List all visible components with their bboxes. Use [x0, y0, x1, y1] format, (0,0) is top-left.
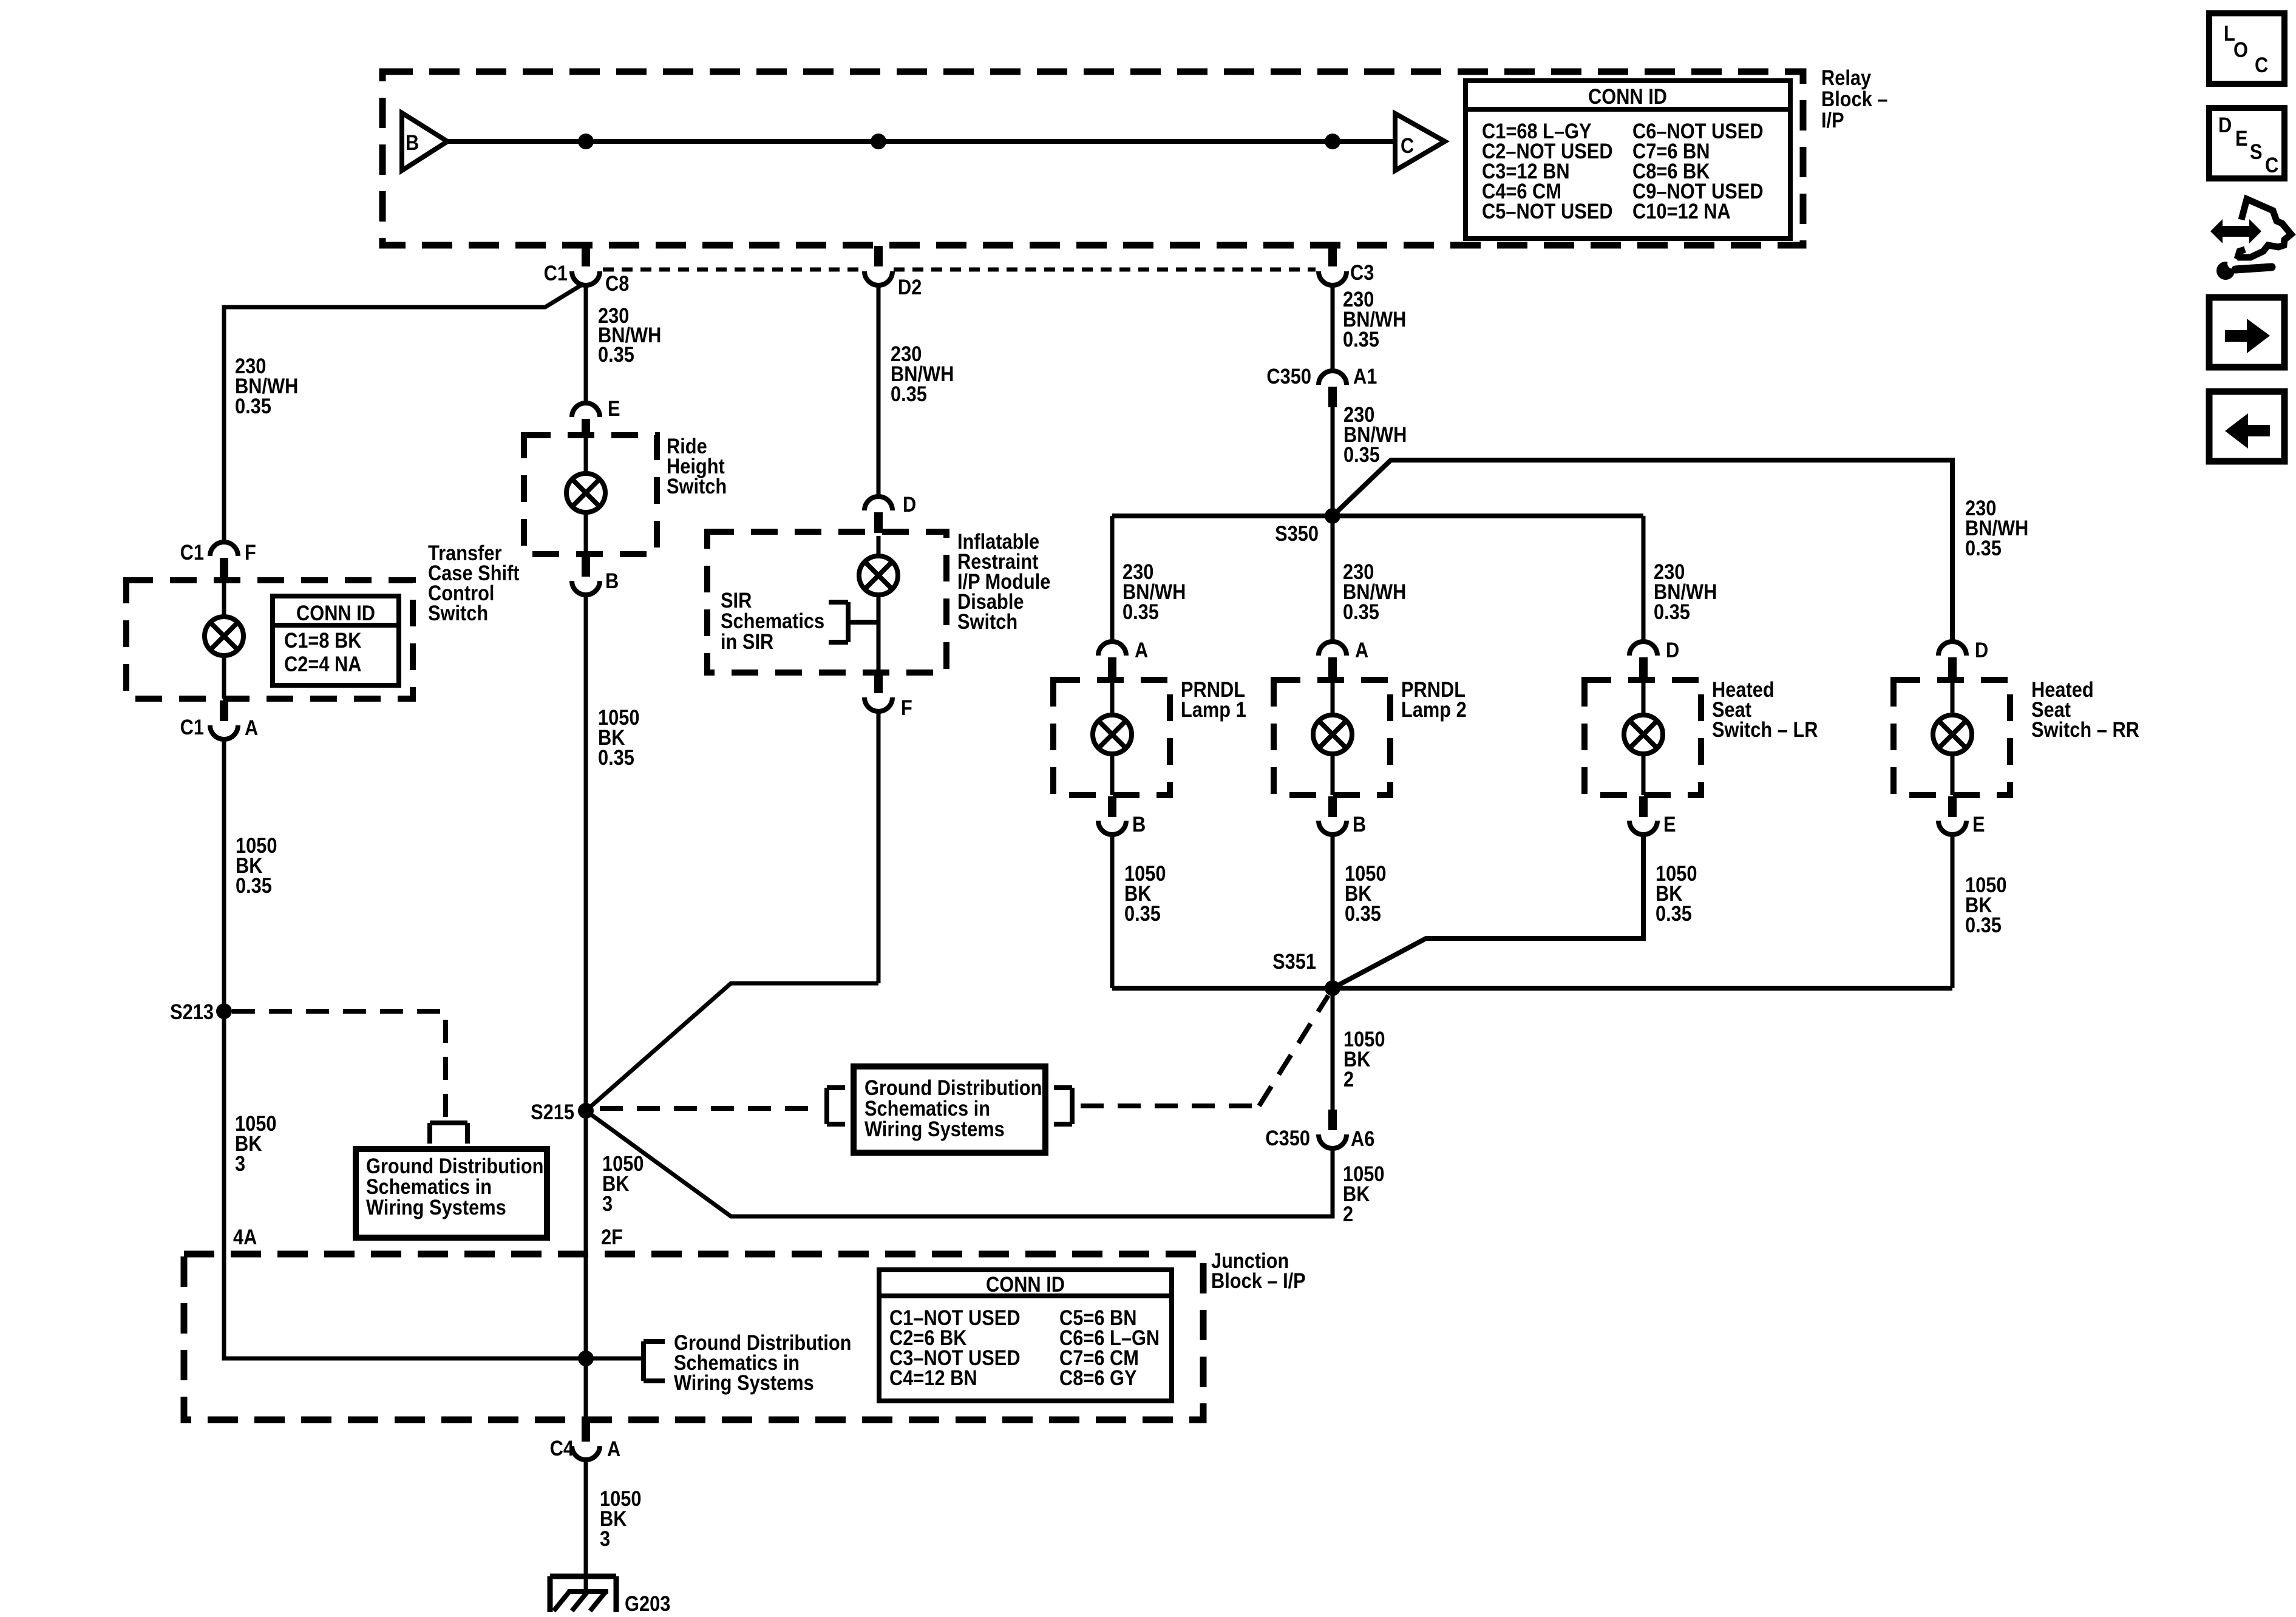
- bracket junction ground reference: [644, 1341, 665, 1381]
- wire label 1050 BK 0.35 (Heated Seat Switch RR): [1965, 873, 2006, 937]
- svg-text:C350: C350: [1266, 364, 1311, 388]
- wire A to junction block: [224, 739, 642, 1358]
- label Transfer Case Shift Control Switch: [428, 541, 520, 625]
- dotted connector tie line: [603, 268, 1316, 272]
- svg-text:C1: C1: [544, 261, 568, 285]
- svg-text:B: B: [1132, 812, 1146, 836]
- wire feed Heated Seat Switch LR: [1642, 516, 1646, 642]
- label Heated Seat Switch LR: [1712, 677, 1818, 741]
- wire label 1050 BK 0.35 (left): [236, 833, 277, 897]
- wire label 230 BN/WH 0.35 (left branch): [235, 354, 298, 418]
- node S215: [531, 1100, 594, 1124]
- off-page arrow B: [402, 113, 447, 171]
- wire label 1050 BK 3 (S215 wire): [602, 1151, 644, 1215]
- bracket right of middle ground distribution box: [1054, 1088, 1072, 1124]
- svg-text:Switch – RR: Switch – RR: [2031, 717, 2139, 741]
- wire label 230 BN/WH 0.35 (above A1): [1343, 287, 1406, 351]
- connector B (PRNDL Lamp 2): [1319, 796, 1366, 836]
- svg-text:C: C: [2255, 53, 2268, 76]
- svg-text:B: B: [1353, 812, 1366, 836]
- svg-text:0.35: 0.35: [1345, 901, 1381, 925]
- label 2F: [601, 1225, 623, 1249]
- inflatable restraint switch dashed box: [707, 532, 946, 673]
- wire label 1050 BK 0.35 (PRNDL Lamp 2): [1345, 861, 1386, 925]
- svg-text:3: 3: [235, 1151, 245, 1175]
- svg-text:C3: C3: [1350, 260, 1374, 284]
- svg-text:0.35: 0.35: [236, 873, 272, 897]
- wire feed PRNDL Lamp 1: [1110, 516, 1115, 642]
- wire D2 to D: [877, 285, 881, 497]
- svg-text:Lamp 2: Lamp 2: [1401, 697, 1467, 721]
- svg-text:in SIR: in SIR: [721, 629, 773, 653]
- bus wire: [447, 139, 1395, 144]
- svg-text:Relay: Relay: [1821, 66, 1872, 89]
- svg-text:0.35: 0.35: [598, 342, 634, 366]
- svg-text:Lamp 1: Lamp 1: [1181, 697, 1246, 721]
- connector B (PRNDL Lamp 1): [1098, 796, 1146, 836]
- connector D (Heated Seat Switch LR): [1629, 638, 1679, 678]
- ground distribution reference box (middle): [854, 1066, 1045, 1153]
- wire feed PRNDL Lamp 2: [1331, 516, 1335, 642]
- svg-text:C8: C8: [605, 271, 629, 295]
- wire A1 to S350: [1331, 407, 1335, 516]
- previous page arrow icon: [2209, 392, 2284, 461]
- dashed reference wire right of S215: [600, 1106, 818, 1111]
- ride height switch dashed box: [524, 435, 657, 554]
- svg-text:0.35: 0.35: [1965, 536, 2002, 560]
- wire label 1050 BK 0.35 (B wire): [598, 705, 639, 769]
- lamp (inflatable restraint switch): [859, 536, 898, 673]
- svg-text:Switch: Switch: [428, 601, 488, 625]
- wire label 1050 BK 2 (above A6): [1343, 1027, 1385, 1091]
- PRNDL Lamp 1 dashed box: [1053, 680, 1170, 795]
- label SIR Schematics in SIR: [721, 588, 824, 653]
- svg-text:0.35: 0.35: [1656, 901, 1692, 925]
- svg-text:Block – I/P: Block – I/P: [1211, 1269, 1306, 1292]
- wire label 230 BN/WH 0.35 (RR branch): [1965, 496, 2028, 560]
- svg-text:A1: A1: [1353, 364, 1377, 388]
- connector A (PRNDL Lamp 1): [1098, 638, 1148, 678]
- svg-text:O: O: [2233, 38, 2248, 61]
- wire label 1050 BK 3 (left): [235, 1111, 276, 1175]
- svg-text:S: S: [2250, 140, 2263, 163]
- CONN ID table (transfer case switch): [273, 596, 399, 685]
- label Ride Height Switch: [667, 434, 727, 498]
- off-page arrow C: [1395, 114, 1445, 171]
- Heated Seat Switch LR dashed box: [1584, 680, 1701, 795]
- wire S215 to A6 branch: [586, 1111, 1333, 1216]
- wire PRNDL Lamp 2 to S351: [1331, 835, 1335, 988]
- PRNDL Lamp 2 dashed box: [1274, 680, 1390, 795]
- lamp (ride height switch): [566, 437, 605, 554]
- node S213: [170, 1000, 232, 1023]
- CONN ID table (relay block): [1466, 81, 1790, 239]
- wire S215 to F branch: [586, 983, 878, 1111]
- wire C3 to A1: [1331, 285, 1335, 371]
- S350 distribution wire: [1112, 514, 1643, 518]
- connector C1/C8: [544, 246, 630, 295]
- Heated Seat Switch RR dashed box: [1894, 680, 2010, 795]
- junction dot (ground tie): [578, 1351, 594, 1366]
- wire B to S215 to junction block: [584, 595, 588, 1421]
- connector C350/A1: [1266, 364, 1377, 407]
- svg-text:D2: D2: [898, 275, 922, 299]
- wire Heated Seat LR to S351: [1333, 835, 1643, 988]
- svg-text:2: 2: [1343, 1067, 1354, 1091]
- wire C8 to E: [584, 285, 588, 403]
- connector D (SIR switch): [864, 492, 916, 533]
- node S351: [1272, 949, 1340, 996]
- svg-text:0.35: 0.35: [891, 382, 927, 405]
- S351 distribution wire: [1112, 986, 1952, 991]
- wire A to G203: [584, 1460, 588, 1589]
- svg-text:C5–NOT USED: C5–NOT USED: [1482, 199, 1613, 223]
- lamp (Heated Seat Switch LR): [1624, 678, 1663, 795]
- wire Heated Seat RR to S351: [1951, 835, 1955, 988]
- svg-text:Switch: Switch: [667, 474, 727, 498]
- svg-text:0.35: 0.35: [1123, 600, 1159, 623]
- label ground distribution (junction): [674, 1331, 851, 1394]
- svg-text:F: F: [901, 696, 912, 719]
- connector C350/A6: [1265, 1110, 1374, 1150]
- svg-text:0.35: 0.35: [1343, 442, 1380, 466]
- LOC icon: [2209, 13, 2284, 84]
- svg-text:3: 3: [600, 1527, 610, 1550]
- svg-text:E: E: [1972, 812, 1985, 836]
- svg-text:B: B: [406, 131, 419, 154]
- svg-text:E: E: [1663, 812, 1676, 836]
- svg-text:CONN ID: CONN ID: [986, 1272, 1065, 1296]
- node S350: [1275, 508, 1340, 545]
- wire C1 to transfer case switch: [224, 285, 581, 540]
- bracket to ground distribution box: [430, 1123, 467, 1144]
- svg-text:C2=4 NA: C2=4 NA: [284, 652, 361, 676]
- svg-text:Block –: Block –: [1821, 87, 1888, 110]
- connector B (ride height switch): [572, 556, 619, 595]
- label PRNDL Lamp 1: [1181, 677, 1246, 721]
- svg-text:Wiring Systems: Wiring Systems: [674, 1371, 814, 1394]
- lamp (PRNDL Lamp 2): [1313, 678, 1352, 795]
- wire label 230 BN/WH 0.35 (D2 branch): [891, 342, 954, 405]
- svg-text:0.35: 0.35: [1654, 600, 1690, 623]
- svg-text:CONN ID: CONN ID: [1588, 84, 1667, 108]
- svg-text:D: D: [1975, 638, 1988, 662]
- connector C1/A: [180, 700, 259, 739]
- wire S350 to RR branch: [1333, 460, 1952, 642]
- svg-text:Wiring Systems: Wiring Systems: [366, 1195, 506, 1219]
- wire label 1050 BK 0.35 (Heated Seat Switch LR): [1656, 861, 1697, 925]
- next page arrow icon: [2209, 297, 2284, 367]
- svg-text:0.35: 0.35: [598, 745, 634, 769]
- wire label 1050 BK 3 (ground wire): [600, 1486, 641, 1550]
- dashed reference wire to S351: [1081, 995, 1328, 1106]
- svg-text:3: 3: [602, 1192, 613, 1215]
- connector C1/F: [180, 540, 256, 578]
- svg-text:A6: A6: [1351, 1127, 1374, 1150]
- svg-text:S351: S351: [1272, 949, 1316, 973]
- svg-text:S350: S350: [1275, 521, 1319, 545]
- svg-text:0.35: 0.35: [1343, 327, 1379, 351]
- wire S351 to A6: [1331, 988, 1335, 1110]
- svg-text:C: C: [2265, 153, 2278, 177]
- svg-text:A: A: [607, 1437, 620, 1460]
- svg-text:I/P: I/P: [1821, 108, 1844, 132]
- svg-text:F: F: [245, 540, 256, 564]
- svg-text:C1=8 BK: C1=8 BK: [284, 628, 362, 652]
- svg-text:S215: S215: [531, 1100, 574, 1124]
- label Relay Block - I/P: [1821, 66, 1888, 132]
- svg-text:G203: G203: [625, 1592, 670, 1615]
- CONN ID table (junction block): [879, 1270, 1172, 1401]
- dashed reference wire from S213: [232, 1011, 446, 1120]
- svg-text:C1: C1: [180, 715, 204, 739]
- wire PRNDL Lamp 1 to S351: [1110, 835, 1115, 988]
- ground distribution reference box (left): [356, 1149, 547, 1238]
- svg-text:Switch – LR: Switch – LR: [1712, 717, 1818, 741]
- relay block dashed box: [382, 72, 1803, 245]
- junction block dashed box: [184, 1254, 1203, 1420]
- svg-text:C8=6 GY: C8=6 GY: [1059, 1366, 1137, 1389]
- wire label 1050 BK 2 (below A6): [1343, 1162, 1384, 1225]
- label PRNDL Lamp 2: [1401, 677, 1467, 721]
- connector A (PRNDL Lamp 2): [1319, 638, 1368, 678]
- DESC icon: [2209, 108, 2284, 178]
- svg-text:0.35: 0.35: [1343, 600, 1379, 623]
- junction dot on bus at C1 drop: [578, 134, 594, 149]
- svg-text:D: D: [2218, 113, 2232, 137]
- svg-text:A: A: [1355, 638, 1368, 662]
- label Inflatable Restraint I/P Module Disable Switch: [957, 529, 1050, 633]
- svg-text:C: C: [1401, 134, 1414, 157]
- bracket SIR reference: [829, 602, 877, 642]
- svg-text:C1: C1: [180, 540, 204, 564]
- wire F down to S215 corner: [877, 711, 881, 983]
- diagnostic icon (arrow and wrench): [2210, 199, 2291, 280]
- junction dot on bus at C3 drop: [1325, 134, 1340, 149]
- connector C4/A: [550, 1421, 621, 1460]
- transfer case switch dashed box: [126, 580, 413, 699]
- svg-text:2F: 2F: [601, 1225, 623, 1249]
- svg-text:B: B: [605, 569, 619, 592]
- connector E: [572, 396, 620, 437]
- connector D2: [864, 246, 922, 299]
- label Junction Block - I/P: [1211, 1249, 1306, 1292]
- svg-text:C4: C4: [550, 1436, 574, 1460]
- wire label 1050 BK 0.35 (PRNDL Lamp 1): [1124, 861, 1166, 925]
- wire feed Heated Seat Switch RR: [1951, 460, 1955, 642]
- svg-text:D: D: [1666, 638, 1679, 662]
- wire label 230 BN/WH 0.35 (C8 branch): [598, 303, 661, 366]
- svg-text:0.35: 0.35: [1124, 901, 1161, 925]
- wire label 230 BN/WH 0.35 (Heated Seat Switch LR): [1654, 560, 1717, 623]
- svg-text:2: 2: [1343, 1202, 1353, 1225]
- svg-text:0.35: 0.35: [235, 394, 271, 418]
- svg-text:D: D: [903, 492, 916, 516]
- svg-text:A: A: [245, 716, 258, 739]
- connector D (Heated Seat Switch RR): [1938, 638, 1988, 678]
- wire label 230 BN/WH 0.35 (PRNDL Lamp 2): [1343, 560, 1406, 623]
- junction dot on bus at D2 drop: [871, 134, 886, 149]
- label 4A: [233, 1225, 257, 1249]
- svg-text:E: E: [608, 396, 620, 420]
- svg-text:S213: S213: [170, 1000, 214, 1023]
- svg-text:4A: 4A: [233, 1225, 257, 1249]
- lamp (PRNDL Lamp 1): [1093, 678, 1132, 795]
- svg-text:0.35: 0.35: [1965, 913, 2002, 937]
- svg-text:CONN ID: CONN ID: [296, 601, 375, 625]
- connector C3: [1319, 246, 1374, 285]
- ground G203: [550, 1576, 670, 1615]
- label Heated Seat Switch RR: [2031, 677, 2139, 741]
- svg-text:C10=12 NA: C10=12 NA: [1632, 199, 1731, 223]
- svg-text:C4=12 BN: C4=12 BN: [889, 1366, 977, 1389]
- svg-text:Wiring Systems: Wiring Systems: [864, 1117, 1005, 1141]
- lamp (Heated Seat Switch RR): [1933, 678, 1972, 795]
- lamp (transfer case switch): [205, 578, 243, 699]
- svg-text:C350: C350: [1265, 1126, 1310, 1150]
- svg-text:Switch: Switch: [957, 609, 1017, 633]
- wire label 230 BN/WH 0.35 (below A1): [1343, 402, 1407, 466]
- wire label 230 BN/WH 0.35 (PRNDL Lamp 1): [1123, 560, 1186, 623]
- connector F (SIR switch): [864, 673, 912, 719]
- bracket left of middle ground distribution box: [827, 1088, 845, 1124]
- connector E (Heated Seat Switch LR): [1629, 796, 1676, 836]
- svg-text:E: E: [2235, 126, 2248, 150]
- svg-text:A: A: [1135, 638, 1148, 662]
- connector E (Heated Seat Switch RR): [1938, 796, 1985, 836]
